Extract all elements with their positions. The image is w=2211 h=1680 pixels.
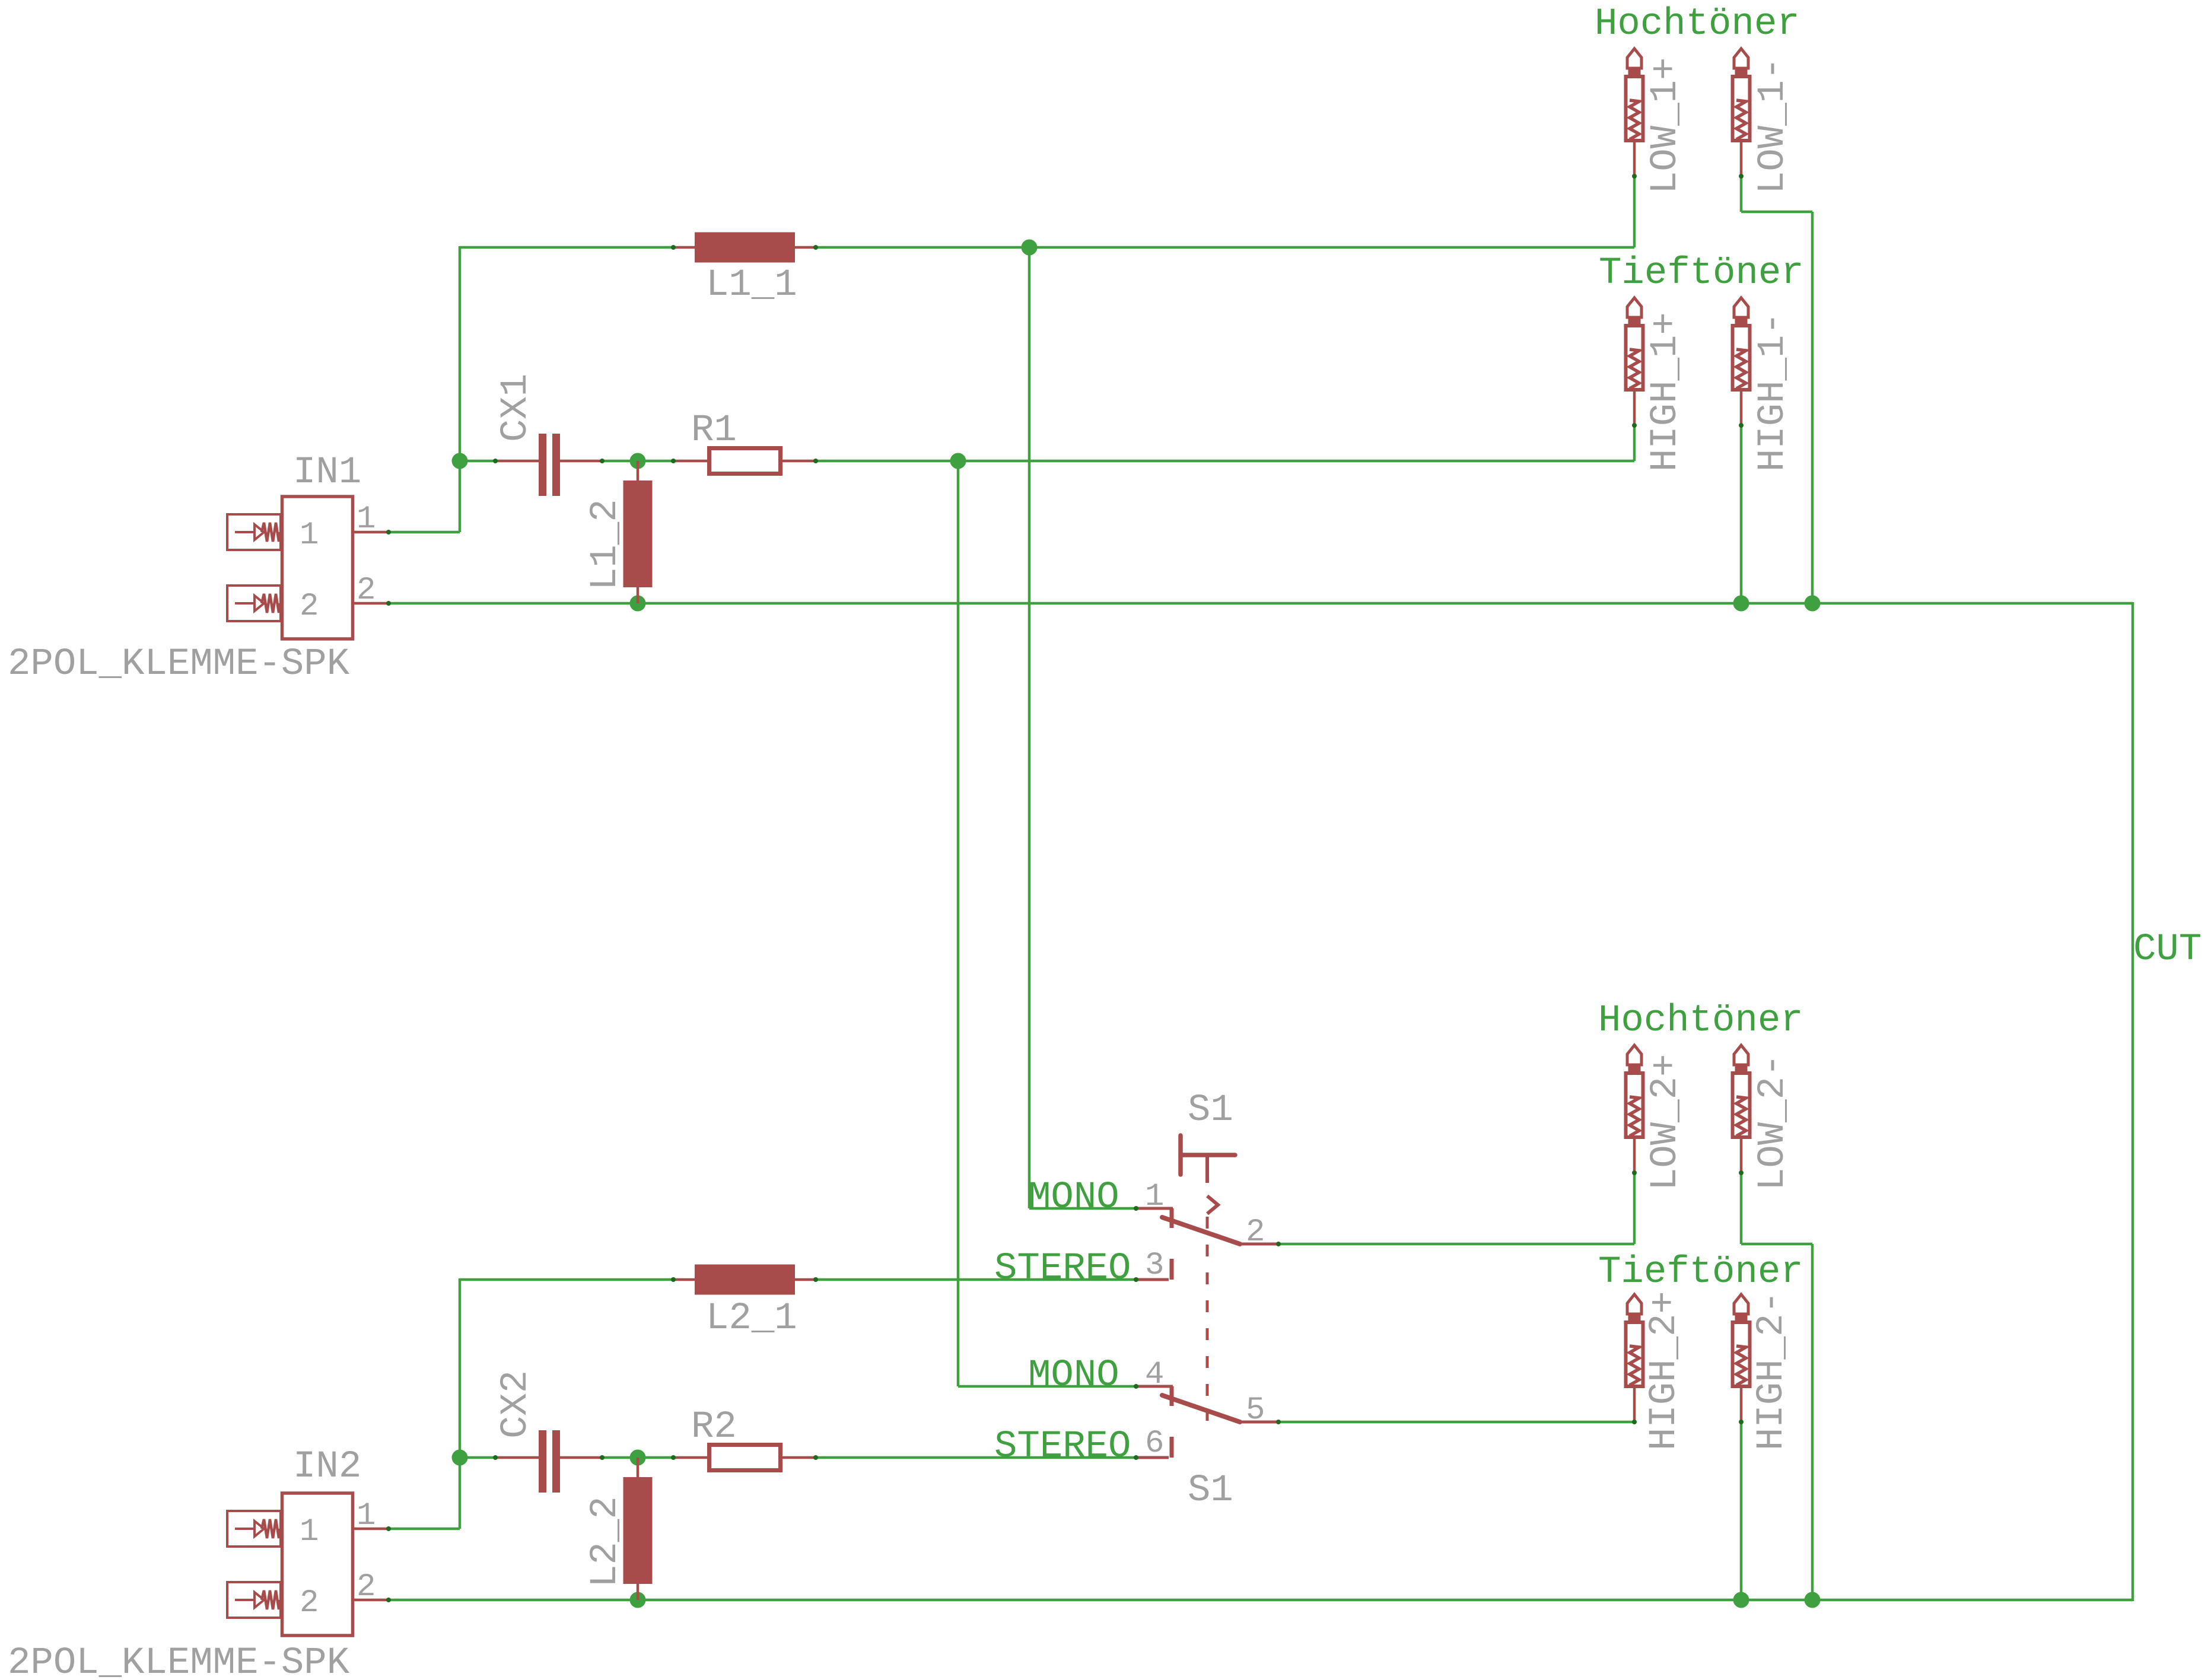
- svg-text:R1: R1: [691, 409, 737, 452]
- wire S1 pin2 to LOW_2+: [1278, 1243, 1634, 1246]
- svg-text:IN1: IN1: [293, 451, 361, 494]
- terminal LOW_2+: [1626, 1045, 1643, 1175]
- svg-text:S1: S1: [1188, 1089, 1233, 1132]
- junction row C / L1_2 bottom: [630, 596, 646, 612]
- wire L2_1 to S1 pin3 (STEREO): [816, 1278, 1136, 1281]
- wire HIGH_2- down to bottom row: [1740, 1422, 1743, 1600]
- svg-text:1: 1: [1145, 1179, 1164, 1215]
- wire bottom row (IN2 pin2 net): [389, 1599, 2133, 1602]
- svg-text:2: 2: [1246, 1214, 1265, 1251]
- svg-text:HIGH_1-: HIGH_1-: [1752, 312, 1795, 472]
- capacitor CX1: [493, 434, 605, 496]
- wire LOW_1- across: [1741, 211, 1812, 214]
- svg-text:LOW_2+: LOW_2+: [1644, 1054, 1687, 1191]
- svg-text:MONO: MONO: [1028, 1354, 1119, 1397]
- junction CX2 row / L2_2 top: [630, 1450, 646, 1466]
- svg-text:L1_1: L1_1: [706, 264, 797, 307]
- wire LOW_2- drop: [1740, 1173, 1743, 1244]
- svg-text:Tieftöner: Tieftöner: [1599, 252, 1804, 295]
- svg-text:CX1: CX1: [495, 374, 537, 442]
- wire vertical MONO4 feed: [957, 460, 960, 1386]
- svg-text:1: 1: [300, 517, 319, 553]
- wire R2 to S1 pin6 (STEREO): [816, 1456, 1136, 1459]
- svg-text:1: 1: [357, 501, 376, 537]
- svg-text:LOW_1-: LOW_1-: [1752, 58, 1795, 194]
- svg-text:CUT: CUT: [2133, 928, 2202, 971]
- wire LOW_2+ drop: [1633, 1173, 1636, 1244]
- switch S1 pole A pin3 contact: [1136, 1259, 1172, 1280]
- terminal LOW_1+: [1626, 49, 1643, 179]
- svg-text:STEREO: STEREO: [994, 1248, 1131, 1290]
- wire LOW_1+ drop: [1633, 176, 1636, 247]
- wire row F stub to CX2: [460, 1456, 497, 1459]
- svg-text:L2_1: L2_1: [706, 1297, 797, 1340]
- switch S1 coupling dashed line: [1206, 1217, 1209, 1421]
- svg-text:5: 5: [1246, 1392, 1265, 1428]
- wire HIGH_1- down to row C: [1740, 425, 1743, 603]
- switch S1 pole A lever to pin2: [1162, 1217, 1278, 1244]
- wire MONO1 to S1 pin1: [1029, 1207, 1136, 1210]
- inductor L2_1: [671, 1265, 818, 1295]
- svg-text:2POL_KLEMME-SPK: 2POL_KLEMME-SPK: [8, 1642, 350, 1680]
- terminal symbol IN1 pin1 clamp: [227, 514, 281, 550]
- terminal LOW_1-: [1733, 49, 1750, 179]
- terminal HIGH_1+: [1626, 298, 1643, 428]
- junction row B / MONO4 feed: [950, 453, 966, 469]
- svg-text:HIGH_2-: HIGH_2-: [1751, 1291, 1793, 1450]
- wire right edge vertical (CUT net): [2132, 602, 2134, 1601]
- junction row B at x775: [452, 453, 468, 469]
- wire vertical x775 ch2: [459, 1278, 462, 1529]
- terminal symbol IN2 pin2 clamp: [227, 1582, 281, 1618]
- wire MONO4 to S1 pin4: [958, 1385, 1136, 1388]
- switch S1 coupling chevron: [1207, 1196, 1218, 1214]
- switch S1 pole B lever to pin5: [1162, 1395, 1278, 1422]
- terminal HIGH_1-: [1733, 298, 1750, 428]
- svg-text:2POL_KLEMME-SPK: 2POL_KLEMME-SPK: [8, 643, 350, 686]
- switch S1 driver bar: [1181, 1135, 1235, 1183]
- switch S1 pole A pin1 contact: [1136, 1208, 1173, 1228]
- wire HIGH_1+ drop: [1633, 425, 1636, 461]
- svg-text:L2_2: L2_2: [584, 1496, 627, 1587]
- svg-text:1: 1: [357, 1498, 376, 1534]
- svg-text:4: 4: [1145, 1357, 1164, 1393]
- connector IN2 box: [282, 1493, 353, 1636]
- inductor L2_2: [623, 1458, 653, 1600]
- junction row B / L1_2 top: [630, 453, 646, 469]
- svg-text:LOW_2-: LOW_2-: [1752, 1054, 1795, 1191]
- wire vertical MONO1 feed: [1028, 246, 1031, 1208]
- capacitor CX2: [493, 1430, 605, 1493]
- svg-text:Hochtöner: Hochtöner: [1598, 1000, 1803, 1042]
- wire row A left (IN1+ to L1_1): [460, 246, 673, 249]
- connector IN1 box: [282, 497, 353, 639]
- wire S1 pin5 to HIGH_2+: [1278, 1421, 1634, 1424]
- wire row C (IN1 pin2 net): [389, 602, 2133, 605]
- junction bottom row / LOW_2- route: [1805, 1592, 1821, 1608]
- terminal HIGH_2-: [1733, 1294, 1750, 1424]
- terminal HIGH_2+: [1626, 1294, 1643, 1424]
- svg-text:LOW_1+: LOW_1+: [1644, 58, 1687, 194]
- wire LOW_2- down to bottom row: [1811, 1244, 1814, 1600]
- switch S1 pole B pin6 contact: [1136, 1437, 1172, 1458]
- wire CX2 to R2: [601, 1456, 675, 1459]
- svg-text:HIGH_2+: HIGH_2+: [1643, 1291, 1686, 1450]
- wire IN1 pin1: [389, 531, 460, 534]
- junction row C / LOW_1- route: [1805, 596, 1821, 612]
- terminal symbol IN1 pin2 clamp: [227, 586, 281, 621]
- svg-text:CX2: CX2: [495, 1370, 537, 1439]
- junction row C / HIGH_1-: [1733, 596, 1749, 612]
- IN2 pin 1 lead: [354, 1528, 389, 1531]
- svg-text:2: 2: [300, 1585, 319, 1621]
- inductor L1_2: [623, 461, 653, 603]
- wire vertical x775 ch1: [459, 246, 462, 532]
- junction bottom row / L2_2 bottom: [630, 1592, 646, 1608]
- wire LOW_2- across: [1741, 1243, 1812, 1246]
- IN1 pin 1 lead: [354, 531, 389, 534]
- inductor L1_1: [671, 233, 818, 263]
- wire row B stub to CX1: [460, 460, 497, 463]
- svg-text:2: 2: [357, 572, 376, 609]
- svg-text:MONO: MONO: [1028, 1176, 1119, 1219]
- wire LOW_1- down to row C: [1811, 212, 1814, 603]
- wire LOW_1- drop: [1740, 176, 1743, 212]
- junction row A / MONO1 feed: [1022, 240, 1038, 256]
- svg-text:Hochtöner: Hochtöner: [1595, 3, 1800, 46]
- wire row B right (R1 to HIGH_1+): [816, 460, 1634, 463]
- wire CX1 to R1: [601, 460, 675, 463]
- wire L2_1 row left: [460, 1278, 673, 1281]
- svg-text:HIGH_1+: HIGH_1+: [1644, 312, 1687, 472]
- svg-text:Tieftöner: Tieftöner: [1598, 1251, 1803, 1294]
- svg-text:S1: S1: [1188, 1469, 1233, 1512]
- resistor R2: [671, 1445, 818, 1471]
- wire IN2 pin1: [389, 1528, 460, 1531]
- svg-text:STEREO: STEREO: [994, 1426, 1131, 1468]
- terminal LOW_2-: [1733, 1045, 1750, 1175]
- svg-text:IN2: IN2: [293, 1446, 361, 1488]
- IN2 pin 2 lead: [354, 1599, 389, 1602]
- resistor R1: [671, 448, 818, 474]
- svg-text:2: 2: [300, 588, 319, 625]
- terminal symbol IN2 pin1 clamp: [227, 1511, 281, 1547]
- switch S1 pole B pin4 contact: [1136, 1386, 1173, 1406]
- svg-text:3: 3: [1145, 1248, 1164, 1284]
- svg-text:6: 6: [1145, 1426, 1164, 1462]
- junction CX2 row at x775: [452, 1450, 468, 1466]
- svg-text:1: 1: [300, 1514, 319, 1550]
- IN1 pin 2 lead: [354, 602, 389, 605]
- wire HIGH_2+ corner: [1633, 1421, 1636, 1422]
- wire row A right (L1_1 to LOW_1+): [816, 246, 1634, 249]
- svg-text:L1_2: L1_2: [584, 499, 627, 590]
- junction bottom row / HIGH_2-: [1733, 1592, 1749, 1608]
- svg-text:2: 2: [357, 1569, 376, 1605]
- svg-text:R2: R2: [691, 1406, 737, 1449]
